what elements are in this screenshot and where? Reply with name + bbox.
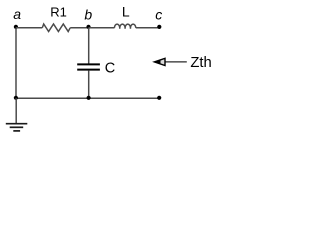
svg-text:C: C [105,61,115,77]
ground symbol [6,124,28,131]
ground stub wire [15,98,17,123]
bottom-left junction dot [14,96,18,100]
wire capacitor down to bottom rail [88,71,90,99]
resistor R1 [42,24,70,32]
svg-text:R1: R1 [50,4,67,19]
svg-text:b: b [84,7,92,23]
left vertical wire a down to ground rail [15,28,17,98]
capacitor C bottom plate [77,69,100,71]
wire a to resistor [16,27,42,29]
capacitor bottom junction dot [87,96,91,100]
Zth arrowhead [154,58,165,65]
node a junction dot [14,25,18,29]
svg-text:c: c [155,7,162,23]
bottom rail wire [16,97,159,99]
Zth arrowhead tip fill [154,60,160,65]
bottom terminal dot [157,96,161,100]
wire resistor to node b [70,27,89,29]
svg-text:a: a [13,6,21,22]
svg-text:L: L [122,4,130,20]
node b junction dot [86,25,90,29]
node c terminal dot [157,25,161,29]
wire node b to inductor [89,27,115,29]
inductor L [114,24,135,29]
capacitor C top plate [77,63,100,65]
Zth arrow line [164,61,187,63]
svg-text:Zth: Zth [190,55,211,71]
wire inductor to node c [136,27,159,29]
wire node b down to capacitor [88,28,90,64]
